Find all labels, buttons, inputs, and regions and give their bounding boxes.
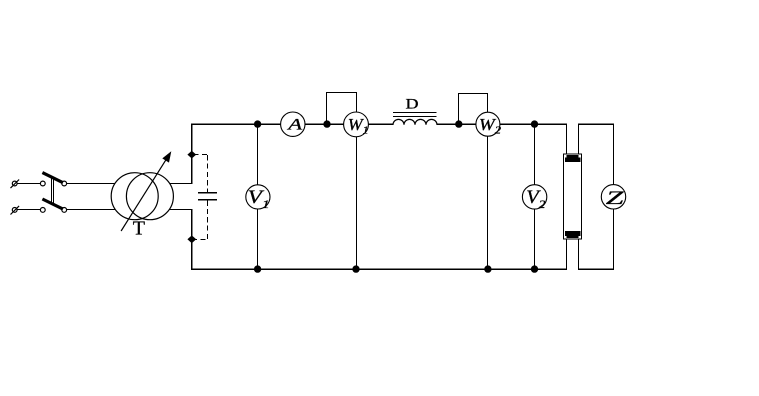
switch S top blade (42, 173, 63, 183)
junction node (capacitor bottom tap, diamond) (187, 235, 196, 243)
terminal X1 (top input, circle with slash mark) (11, 180, 20, 189)
voltmeter V1 (246, 185, 270, 211)
switch S mechanical linkage (double line) (52, 177, 54, 204)
wire W2 voltage lead down to bottom bus (487, 136, 489, 270)
wire V2 branch lower (534, 209, 536, 270)
junction node (capacitor top tap, diamond) (187, 151, 196, 159)
voltmeter V2 (522, 185, 546, 211)
wattmeter W2 (476, 112, 501, 136)
wire V1 branch upper (257, 124, 259, 185)
wire terminal X2 to switch bottom pole (17, 209, 40, 211)
wire W2 to lamp top-left pin (500, 123, 567, 125)
fluorescent lamp tube EL (564, 154, 582, 239)
wire W1 current-coil loop (326, 93, 357, 125)
autotransformer T (two overlapping circles) (111, 173, 173, 220)
wire W1 to inductor (368, 123, 393, 125)
junction node (V2 top) (531, 120, 538, 127)
wire transformer to left bus (bottom) (170, 209, 193, 211)
wire ammeter to W1 (305, 123, 344, 125)
junction node (W1 bottom) (352, 265, 359, 272)
wire left bus upper vertical (191, 123, 193, 183)
switch S bottom blade (42, 199, 63, 209)
ammeter A (281, 112, 305, 136)
inductor D (ballast choke, 4 arcs with core lines) (393, 113, 437, 125)
wire V2 branch upper (534, 124, 536, 185)
autotransformer T adjustment arrow (121, 151, 171, 231)
wire starter Z bottom return to lamp bottom-right pin (578, 209, 614, 270)
junction node (V2 bottom) (531, 265, 538, 272)
switch S top pole contacts (40, 181, 66, 186)
wire inductor to W2 (437, 123, 477, 125)
junction node (W2 current loop tap) (455, 120, 462, 127)
junction node (V1 bottom) (254, 265, 261, 272)
wire top bus: left bus to ammeter (191, 123, 281, 125)
wattmeter W1 (344, 112, 369, 137)
wire lamp bottom-left pin down (566, 239, 568, 270)
starter Z (601, 185, 625, 209)
wire bottom bus (191, 268, 567, 270)
wire lamp top-right pin up and over to starter branch (578, 124, 614, 185)
wire transformer to left bus (top) (170, 183, 193, 185)
wire V1 branch lower (257, 209, 259, 270)
wire W2 current-coil loop (458, 94, 488, 125)
svg-text:Z: Z (606, 187, 624, 208)
wire lamp top-left pin down (566, 124, 568, 154)
capacitor C (dashed optional connection) (194, 155, 217, 240)
junction node (W1 current loop tap) (323, 120, 330, 127)
junction node (W2 bottom) (484, 265, 491, 272)
wire W1 voltage lead down to bottom bus (356, 137, 358, 270)
switch S bottom pole contacts (40, 208, 66, 213)
wire switch to transformer (top) (67, 183, 116, 185)
terminal X2 (bottom input, circle with slash mark) (11, 206, 20, 215)
wire left bus lower vertical (191, 209, 193, 270)
svg-text:T: T (133, 217, 145, 239)
svg-text:A: A (286, 116, 303, 134)
wire terminal X1 to switch top pole (17, 183, 40, 185)
svg-text:D: D (406, 95, 419, 112)
junction node (V1 top) (254, 120, 261, 127)
wire switch to transformer (bottom) (67, 209, 116, 211)
